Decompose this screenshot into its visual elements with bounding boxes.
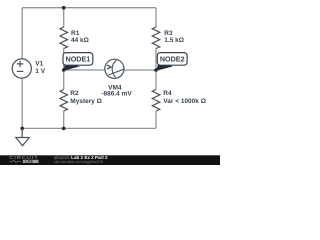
CircuitLab logo: [9, 155, 38, 163]
junction dot node A (NODE1): [62, 68, 66, 72]
svg-text:NODE2: NODE2: [160, 55, 185, 64]
svg-text:Var < 1000k Ω: Var < 1000k Ω: [163, 98, 206, 105]
node NODE2 flag pointer: [156, 63, 173, 71]
node NODE2 label box: [157, 53, 187, 66]
svg-text:R2: R2: [70, 90, 79, 97]
wire R3 branch leads: [155, 8, 157, 70]
wire top horizontal: [22, 7, 156, 9]
svg-text:http://circuitlab.com/c/6gg5/k: http://circuitlab.com/c/6gg5/kw2676: [54, 160, 103, 164]
voltmeter VM4: [105, 59, 124, 78]
wire left vertical (V1 to bottom): [21, 78, 23, 128]
resistor R1: [60, 27, 68, 49]
svg-text:V1: V1: [35, 61, 43, 68]
resistor R4: [152, 90, 160, 112]
resistor R2: [60, 90, 68, 112]
voltage source V1: [12, 59, 31, 78]
wire R1 branch leads: [63, 8, 65, 70]
svg-text:LAB: LAB: [25, 160, 33, 164]
svg-text:1.5 kΩ: 1.5 kΩ: [164, 37, 184, 44]
junction dot bottom (R2 / bottom wire): [62, 127, 66, 131]
node NODE1 label box: [63, 53, 93, 66]
wire bottom horizontal: [22, 127, 156, 129]
junction dot bottom left (ground): [20, 127, 24, 131]
junction dot top (R1 / top wire): [62, 6, 66, 10]
wire R2 branch leads: [63, 70, 65, 128]
wire R4 branch leads: [155, 70, 157, 128]
wire VM4 right to node2: [124, 69, 156, 71]
ground: [16, 128, 29, 145]
svg-text:Mystery Ω: Mystery Ω: [70, 98, 102, 105]
svg-text:1 V: 1 V: [35, 68, 45, 75]
svg-text:44 kΩ: 44 kΩ: [71, 37, 89, 44]
svg-text:R1: R1: [71, 30, 80, 37]
wire left vertical (top segment to V1): [21, 8, 23, 59]
watermark bar: [0, 155, 220, 165]
svg-text:NODE1: NODE1: [66, 55, 91, 64]
resistor R3: [152, 27, 160, 49]
svg-text:R3: R3: [164, 30, 173, 37]
node NODE1 flag pointer: [63, 63, 80, 71]
svg-text:-886.4 mV: -886.4 mV: [101, 91, 132, 98]
junction dot node B (NODE2): [154, 68, 158, 72]
wire node1 to VM4 left: [64, 69, 105, 71]
svg-text:R4: R4: [163, 90, 172, 97]
